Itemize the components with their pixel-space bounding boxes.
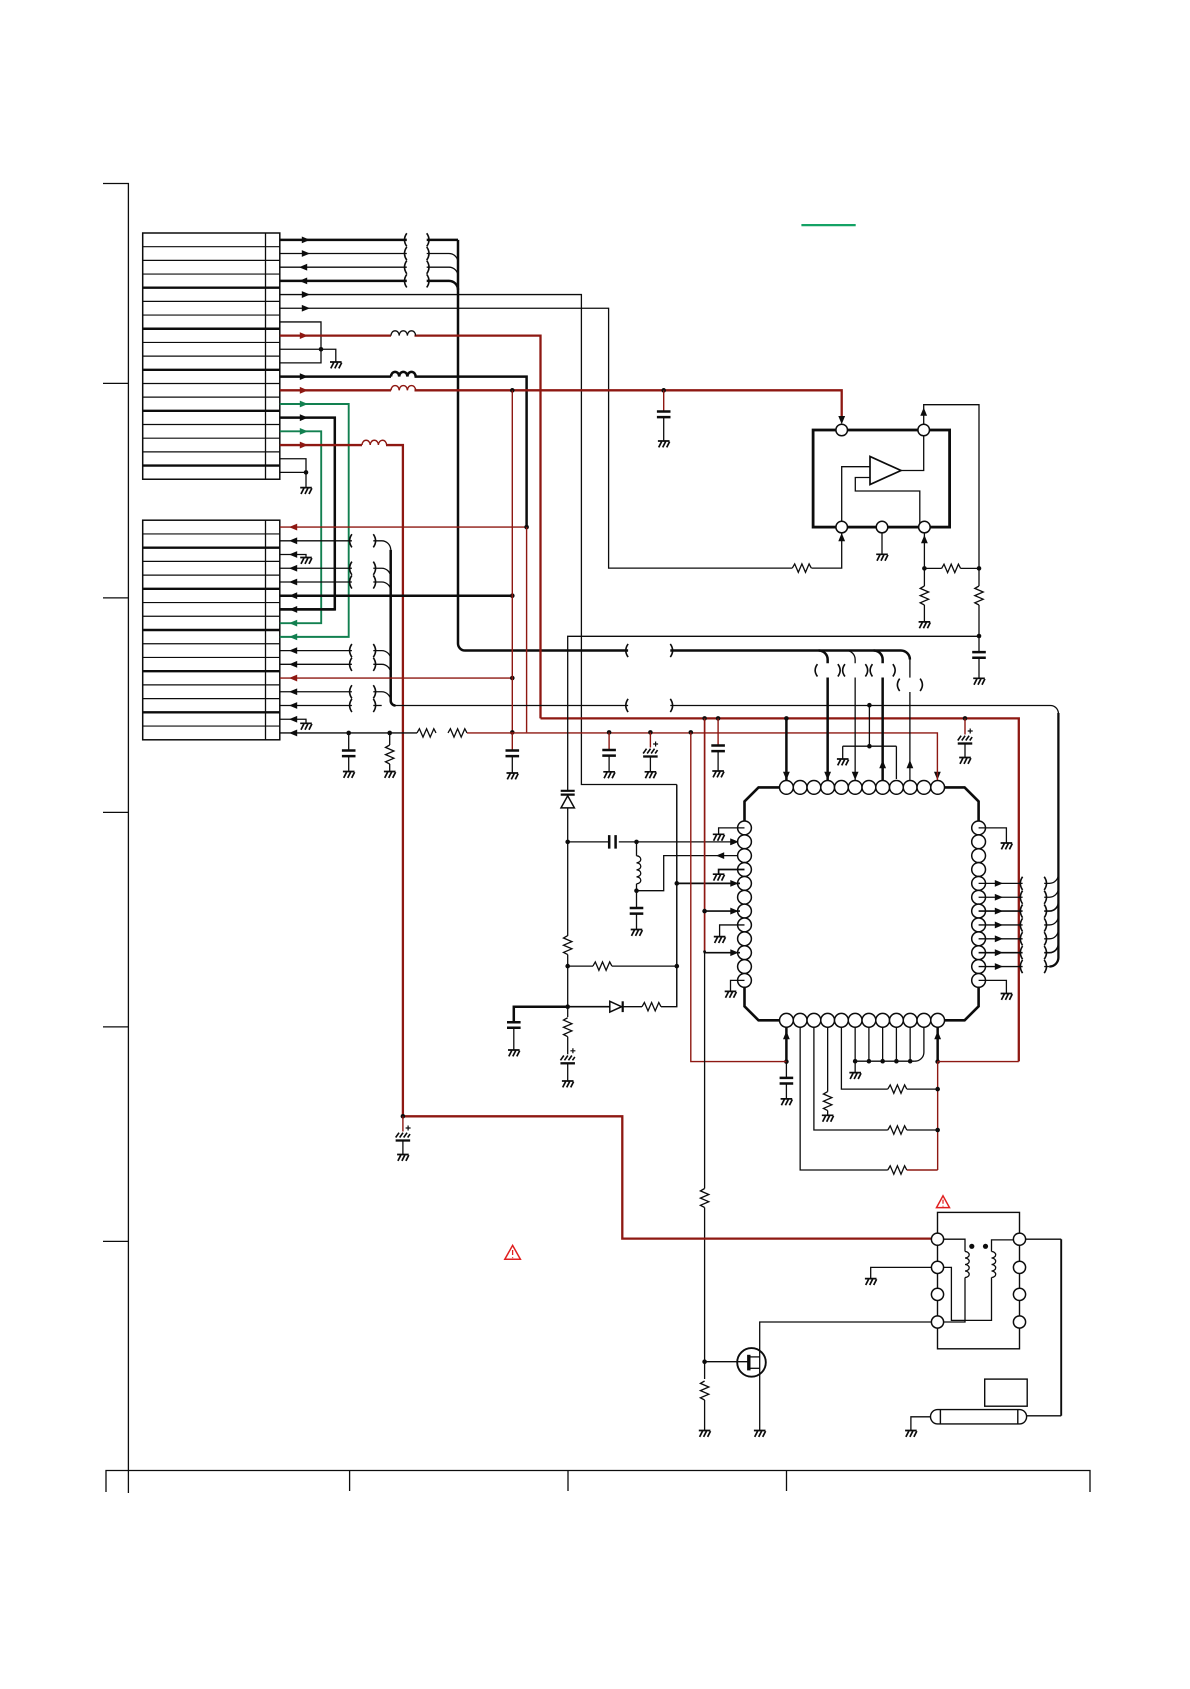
transformer T1 left pin 1: [931, 1233, 943, 1245]
connector CN2: [143, 520, 280, 740]
wire CN2 row 12 (red): [280, 675, 515, 682]
wire L8 ground stub: [720, 925, 745, 936]
wire CN1 row 3 bus A: [280, 261, 458, 277]
ground: [714, 937, 726, 943]
ground: [919, 622, 931, 628]
resistor R7: [975, 568, 983, 638]
IC U1 bottom pin 9: [890, 1013, 904, 1027]
wire B12 to rail C: [934, 1027, 941, 1064]
wire R7 link: [979, 902, 1059, 918]
op-amp U2 pin 2: [918, 424, 930, 436]
ground: [1001, 843, 1013, 849]
transformer T1 right pin 3: [1013, 1288, 1025, 1300]
ground: [905, 1431, 917, 1437]
wire L12 ground stub: [731, 980, 745, 991]
wire bus A drop: [815, 651, 840, 781]
ground: [631, 930, 643, 936]
wire net V1 vertical: [510, 390, 515, 734]
wire CN2 row 3 ground stub: [280, 551, 306, 558]
drawing border left rail: [103, 184, 128, 1494]
ground: [300, 558, 312, 564]
wire CN2 row 13 bus B: [280, 685, 391, 701]
IC U1 bottom pin 6: [848, 1013, 862, 1027]
wire U2 pin3 arrow: [838, 533, 845, 541]
wire clamp line: [514, 785, 677, 1022]
wire bus A drop: [870, 651, 895, 781]
IC U1 left pin 2: [738, 835, 752, 849]
wire CN2 row 1 (red): [280, 524, 529, 531]
resistor R1: [792, 564, 811, 572]
transformer T1 body: [938, 1212, 1020, 1348]
IC U1 right pin 8: [972, 918, 986, 932]
wire bottom bus tie: [853, 1027, 924, 1072]
inductor L3: [391, 386, 416, 391]
transformer T1 right pin 1: [1013, 1233, 1025, 1245]
ground: [959, 758, 971, 764]
wire bus B vertical: [391, 550, 396, 706]
resistor R3: [448, 729, 467, 737]
IC U1 right pin 1: [972, 821, 986, 835]
IC U1 top pin 9: [890, 781, 904, 795]
transformer T1 left pin 2: [931, 1261, 943, 1273]
resistor R10: [642, 1003, 661, 1011]
ground: [876, 554, 888, 560]
resistor R15: [823, 1027, 831, 1115]
wire CN2 row 4 bus B: [280, 562, 391, 578]
op-amp U2 pin 1: [836, 424, 848, 436]
IC U1 top pin 1: [780, 781, 794, 795]
wire CN1 row 1 bus A: [280, 233, 458, 246]
wire R5 link: [979, 874, 1059, 890]
ground: [562, 1081, 574, 1087]
op-amp U2 pin 3: [836, 521, 848, 533]
wire bus B right vertical: [1049, 713, 1058, 967]
wire bus A horizontal to IC: [465, 644, 910, 660]
resistor R6: [920, 568, 928, 621]
IC U1 right pin 7: [972, 904, 986, 918]
drawing border bottom rail: [106, 1471, 1090, 1493]
wire R8 link: [979, 916, 1059, 932]
resistor R9: [568, 962, 679, 970]
IC U1 right pin 5: [972, 876, 986, 890]
wire to L5: [677, 880, 740, 887]
transformer T1 left pin 4: [931, 1316, 943, 1328]
IC U1 left pin 1: [738, 821, 752, 835]
wire power net B path: [401, 1114, 932, 1239]
capacitor C14 (electrolytic): [396, 1116, 411, 1154]
wire rail A to T1: [783, 718, 790, 780]
wire B3 net: [814, 1027, 888, 1130]
wire node X bottom: [565, 966, 570, 1009]
IC U1 bottom pin 8: [876, 1013, 890, 1027]
ground: [658, 441, 670, 447]
wire R6 link: [979, 888, 1059, 904]
IC U1 top pin 10: [903, 781, 917, 795]
IC U1 top pin 3: [807, 781, 821, 795]
IC U1 right pin 6: [972, 890, 986, 904]
wire CN2 row 10 bus B: [280, 644, 391, 660]
ground: [343, 772, 355, 778]
ground: [754, 1431, 766, 1437]
inductor L1: [391, 331, 416, 336]
ground: [300, 488, 312, 494]
capacitor C3: [506, 732, 520, 772]
wire CN1 row 2 bus A: [280, 247, 458, 263]
inductor L2: [391, 372, 416, 377]
IC U1 right pin 10: [972, 946, 986, 960]
IC U1 left pin 9: [738, 932, 752, 946]
IC U1 left pin 4: [738, 863, 752, 877]
wire B1 to rail C: [783, 1027, 790, 1064]
resistor R16: [700, 1189, 708, 1364]
ground: [699, 1431, 711, 1437]
wire CN1 row 4 bus A: [280, 274, 458, 290]
component box: [985, 1379, 1027, 1406]
resistor R14: [888, 1085, 907, 1093]
IC U1 left pin 7: [738, 904, 752, 918]
wire CN1 row 8 (power): [280, 332, 541, 718]
IC U1 top pin 2: [793, 781, 807, 795]
wire gate net vertical upper: [702, 718, 707, 951]
ground: [837, 759, 849, 765]
ground: [849, 1073, 861, 1079]
wire to IC pin L2: [637, 839, 741, 846]
IC U1 bottom pin 3: [807, 1013, 821, 1027]
IC U1 bottom pin 7: [862, 1013, 876, 1027]
wire T12 drop (red): [936, 767, 938, 780]
wire CN2 row 2 bus B: [280, 534, 391, 550]
wire CN1 row 16 (power B): [280, 442, 403, 1117]
wire power rail B: [467, 730, 941, 780]
transformer T1 right pin 2: [1013, 1261, 1025, 1273]
wire CN1 row 12 rail to op-amp: [280, 387, 845, 424]
IC U1 bottom pin 2: [793, 1013, 807, 1027]
wire T1 pin4 to Q1 drain: [760, 1322, 932, 1355]
ground: [603, 772, 615, 778]
resistor R13: [888, 1126, 907, 1134]
wire bus A vertical: [458, 240, 465, 651]
IC U1 left pin 10: [738, 946, 752, 960]
IC U1 bottom pin 12: [931, 1013, 945, 1027]
wire power rail C (red): [691, 732, 1019, 1061]
IC U1 top pin 8: [876, 781, 890, 795]
wire to L7: [705, 908, 740, 915]
op-amp U2: [813, 430, 950, 527]
op-amp U2 pin 4: [876, 521, 888, 533]
net highlight segment: [801, 224, 855, 226]
wire divider to node X: [568, 636, 979, 790]
transformer T1 right pin 4: [1013, 1316, 1025, 1328]
IC U1 left pin 8: [738, 918, 752, 932]
IC U1 right pin 9: [972, 932, 986, 946]
resistor R5: [942, 564, 961, 572]
wire U2 pin5 node: [921, 533, 981, 571]
IC U1 top pin 12: [931, 781, 945, 795]
IC U1 right pin 3: [972, 849, 986, 863]
transformer T1 primary winding: [938, 1239, 970, 1322]
ground: [300, 723, 312, 729]
IC U1 top pin 5: [835, 781, 849, 795]
wire feedback net (red): [935, 1062, 940, 1170]
wire T7 bracket: [843, 703, 897, 779]
wire CN2 row 7: [280, 608, 335, 611]
capacitor C13: [780, 1062, 794, 1099]
connector CN1: [143, 233, 280, 479]
wire R11 link: [979, 960, 1050, 973]
wire CN1 row 6: [280, 305, 842, 568]
transformer T1 secondary winding: [938, 1240, 1020, 1321]
wire U2 output to divider: [920, 405, 979, 569]
op-amp U2 pin 5: [919, 521, 931, 533]
IC U1 top pin 4: [821, 781, 835, 795]
capacitor C1: [657, 390, 671, 440]
wire node X to oscillator: [565, 808, 570, 936]
wire gate net lower: [704, 952, 706, 1189]
ground: [725, 991, 737, 997]
capacitor C6: [711, 718, 725, 770]
capacitor C7 (electrolytic): [958, 718, 973, 757]
wire R12 ground stub: [979, 980, 1007, 993]
ground: [397, 1155, 409, 1161]
wire power rail A: [541, 716, 1019, 1061]
diode D2: [610, 1001, 642, 1012]
wire CN1 rows 7/9/10 tie: [280, 322, 336, 363]
ground: [713, 874, 725, 880]
wire CN2 row 6: [280, 592, 515, 599]
transformer T1 polarity dots: [969, 1244, 988, 1249]
wire L4 ground stub: [719, 869, 745, 874]
inductor L5: [634, 842, 641, 893]
resistor R4: [386, 733, 394, 771]
wire CN1 row 15 (green): [280, 428, 321, 627]
wire IC pin L3 loop: [637, 852, 741, 891]
wire B2 net: [800, 1027, 888, 1170]
IC U1 top pin 7: [862, 781, 876, 795]
transformer T1 left pin 3: [931, 1288, 943, 1300]
capacitor C2: [342, 733, 356, 771]
ground: [508, 1050, 520, 1056]
capacitor C11: [507, 1022, 521, 1050]
wire CN2 row 11 bus B: [280, 658, 391, 674]
wire CN1 row 11 / CN2 row 1 junction drop: [526, 527, 528, 732]
IC U1 left pin 5: [738, 876, 752, 890]
diode D1 (zener): [561, 791, 575, 808]
IC U1 left pin 3: [738, 849, 752, 863]
wire CN1 row 11: [280, 373, 527, 526]
wire B5 net: [841, 1027, 887, 1089]
ground: [713, 834, 725, 840]
ground: [645, 772, 657, 778]
wire R9 link: [979, 930, 1059, 946]
wire CN2 row 14 bus B out: [280, 699, 1059, 714]
IC U1 bottom pin 11: [917, 1013, 931, 1027]
capacitor C4: [602, 732, 616, 771]
wire CN2 row 15 ground stub: [280, 716, 306, 723]
ground: [822, 1115, 834, 1121]
wire L1 ground stub: [719, 828, 745, 834]
resistor R12: [888, 1166, 907, 1174]
wire CN2 row 16 rail: [280, 730, 417, 737]
IC U1 top pin 6: [848, 781, 862, 795]
fuse F1: [911, 1410, 1027, 1431]
wire bus A drop: [843, 651, 868, 781]
capacitor C9: [568, 835, 639, 849]
wire R10 link: [979, 944, 1059, 960]
ground: [973, 678, 985, 684]
wire to L10: [703, 949, 740, 956]
resistor R2: [417, 729, 436, 737]
ground: [1001, 994, 1013, 1000]
ground stub U2 pin4: [881, 533, 883, 554]
wire CN1 row 5: [280, 291, 677, 784]
ground: [330, 362, 342, 368]
wire T1 right pin1 to link: [1026, 1239, 1062, 1416]
IC U1 bottom pin 4: [821, 1013, 835, 1027]
IC U1 right pin 11: [972, 960, 986, 974]
wire CN1 row 13 (green): [280, 401, 349, 641]
capacitor C10: [630, 891, 644, 930]
IC U1 right pin 4: [972, 863, 986, 877]
wire CN2 row 5 bus B: [280, 575, 391, 591]
resistor R17: [700, 1362, 708, 1431]
IC U1 left pin 12: [738, 974, 752, 988]
warning symbol W1: [505, 1245, 521, 1259]
IC U1 right pin 12: [972, 974, 986, 988]
resistor R11: [564, 1007, 572, 1055]
IC U1 left pin 6: [738, 890, 752, 904]
inductor L4: [362, 440, 387, 445]
wire CN1 row 14: [280, 414, 335, 613]
ground: [781, 1099, 793, 1105]
wire CN1 rows 17/18 tie: [280, 459, 309, 488]
wire net Y vertical: [675, 785, 680, 1007]
capacitor C8: [972, 636, 986, 678]
IC U1 top pin 11: [917, 781, 931, 795]
wire L2 arrow: [730, 838, 738, 845]
warning symbol W2: [937, 1196, 950, 1208]
IC U1 left pin 11: [738, 960, 752, 974]
IC U1 bottom pin 5: [835, 1013, 849, 1027]
wire R1 ground stub: [979, 828, 1007, 843]
IC U1 bottom pin 1: [780, 1013, 794, 1027]
IC U1 body: [745, 787, 979, 1020]
capacitor C12 (electrolytic): [560, 1048, 575, 1081]
capacitor C5 (electrolytic): [643, 732, 658, 771]
ground: [865, 1279, 877, 1285]
IC U1 right pin 2: [972, 835, 986, 849]
resistor R8: [564, 936, 572, 969]
ground: [384, 772, 396, 778]
transistor Q1 (MOSFET): [705, 1348, 766, 1430]
wire bus A drop: [897, 660, 922, 781]
IC U1 bottom pin 10: [903, 1013, 917, 1027]
ground: [507, 773, 519, 779]
ground: [712, 771, 724, 777]
wire T1 pin2 ground stub: [871, 1267, 932, 1278]
